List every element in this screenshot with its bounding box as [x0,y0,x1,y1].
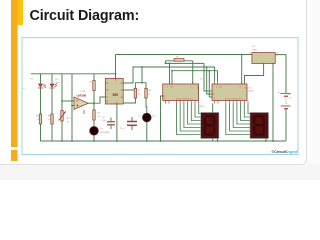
wire top-left rail [31,73,116,75]
wire top long bus [116,54,252,56]
LED D1 (red, active circle) [90,127,99,136]
display2 7-segment [250,113,269,139]
photodiode D4 (IR receiver) [50,83,57,88]
preset RV1 [59,111,66,122]
svg-text:Circuit Diagram:: Circuit Diagram: [30,8,140,24]
wire battery negative [285,109,287,141]
svg-text:7408: 7408 [252,49,258,51]
LED D5 (IR transmitter) [38,84,46,88]
slide card [0,0,307,165]
wire D5 column [40,74,42,141]
wire bus y63 [166,62,205,64]
wire fan U4 to display2 [226,104,250,135]
wire U5 right to battery [275,55,286,93]
wire op-amp inverting input [62,100,74,102]
border frame [22,38,298,155]
wire R1 bottom [123,98,135,103]
wire op-amp non-inverting input [72,105,74,107]
wire R2 bottom to D2 [145,98,148,113]
gate U5 [249,52,279,66]
wire U5 ground column [272,63,274,141]
wire R5 chain [93,74,95,141]
wire 555 ground stub [116,104,118,141]
resistor R2 [145,88,147,98]
counter U3 4026 [163,82,199,104]
svg-text:©CircuitDigest: ©CircuitDigest [272,150,298,154]
wire fan U3 to display1 [177,104,201,135]
wire display1 common [217,139,219,142]
wire top bus drop to U4 [241,55,243,85]
wire display2 common [265,139,267,142]
wire R7 left [166,61,175,64]
display1 7-segment [201,113,219,139]
wire output to 555 trigger [94,97,106,103]
wire 555 pin3 to bus [123,67,134,83]
LED D2 (red, active circle) [143,113,152,122]
capacitor C2 [107,122,115,125]
wire U5 output down [245,63,264,84]
accent bar bottom segment [11,150,18,161]
timer U2 555 [105,79,123,105]
svg-text:4026: 4026 [248,91,254,93]
svg-text:10 12 13 9 11 6 7: 10 12 13 9 11 6 7 [225,99,243,101]
junction dots [61,54,274,142]
wire U4 ground [212,104,214,142]
wire D4 column [51,74,53,141]
svg-text:+: + [278,90,280,94]
wire op-amp output [88,102,94,104]
wire U3 clock stub [169,63,171,84]
wire bus70 to U4 [209,71,212,97]
op-amp U1:A LM358 [74,97,88,114]
accent bar wide top segment [11,0,23,25]
resistor R1 [134,88,136,98]
wire bias column [71,74,73,141]
wire bottom ground rail [41,140,287,142]
wire bus67 to U4 clock [207,67,212,94]
resistor R3 [93,110,95,120]
wire C1 stubs [131,117,133,130]
wire U3 ground [161,96,163,141]
wire vcc riser [115,55,117,79]
resistor R5 [93,81,95,91]
svg-text:10 12 13 9 11 6 7: 10 12 13 9 11 6 7 [176,99,194,101]
resistor R6 [39,114,41,124]
resistor R7 (horizontal) [174,59,184,62]
wire RV1 column [61,74,63,141]
svg-text:555: 555 [113,93,119,97]
svg-text:4026: 4026 [200,106,206,108]
wire D2 cathode [146,122,148,141]
accent bar narrow [11,0,18,147]
capacitor C1 [127,122,137,126]
counter U4 4026 [212,82,248,104]
resistor R8 [51,114,53,124]
wire R1 R2 top tie [135,67,146,88]
wire bus63 to U4 [204,63,212,91]
wire U3 pin2 stub [171,71,173,84]
wire C2 stubs [110,118,112,130]
svg-text:LED-RED: LED-RED [100,132,110,134]
wire 555 pin7 to R1 [123,89,134,91]
battery B1 [278,90,291,109]
wire R7 right [184,61,193,84]
svg-text:LM358: LM358 [77,94,87,98]
wire bus y67 [133,67,215,82]
wire bus y70 [172,71,218,82]
